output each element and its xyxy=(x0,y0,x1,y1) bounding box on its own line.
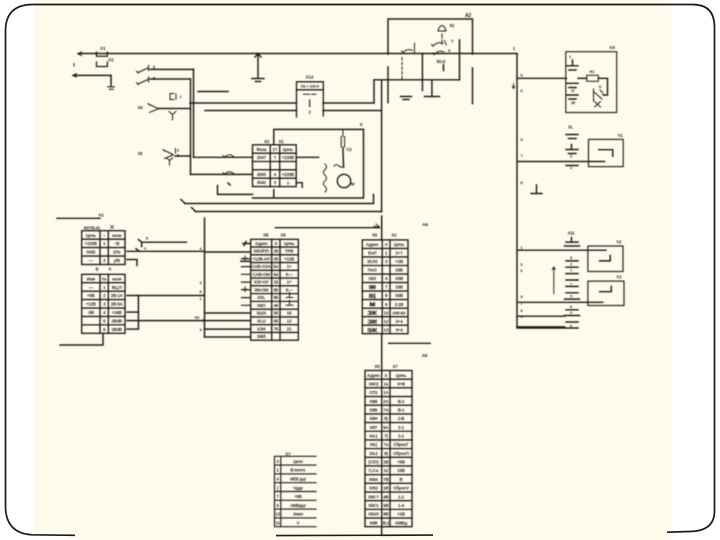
svg-text:А3: А3 xyxy=(609,45,615,50)
svg-text:А1: А1 xyxy=(98,213,104,218)
wire bus stub b xyxy=(517,326,565,328)
svg-text:Х12: Х12 xyxy=(306,75,314,80)
svg-text:В1-6: В1-6 xyxy=(437,59,446,64)
svg-text:Х: Х xyxy=(275,241,278,246)
svg-text:С2: С2 xyxy=(346,147,352,152)
svg-text:Х11: Х11 xyxy=(568,231,576,236)
box A2 outline xyxy=(388,19,473,104)
arrow on phase wire left end xyxy=(78,52,82,56)
svg-text:К—: К— xyxy=(286,287,294,292)
X8 ground glyphs xyxy=(286,293,293,306)
svg-text:7а: 7а xyxy=(384,442,389,447)
X8 left stub pins xyxy=(242,259,251,306)
X6 big glyph overlay xyxy=(367,285,378,335)
svg-text:3.1В: 3.1В xyxy=(395,302,404,307)
svg-text:Х5В: Х5В xyxy=(395,276,403,281)
svg-text:3500: 3500 xyxy=(257,172,267,177)
svg-text:Цепь: Цепь xyxy=(394,242,405,247)
svg-text:у/В: у/В xyxy=(114,258,120,263)
relay dashed link xyxy=(401,58,403,81)
svg-text:F2: F2 xyxy=(108,58,114,63)
wire X12 pin2 feed xyxy=(205,110,296,112)
wire to X2 row2 xyxy=(194,156,253,158)
svg-text:?А: ?А xyxy=(383,407,390,412)
wire riser right contact xyxy=(193,69,195,157)
wire stub upper xyxy=(198,91,228,93)
ground GND3 xyxy=(425,96,440,98)
wire rail A6 xyxy=(389,342,431,344)
wire riser V2 long xyxy=(381,80,383,212)
svg-text:Х4: Х4 xyxy=(138,105,144,110)
svg-text:К—: К— xyxy=(286,272,294,277)
wire X12 pin1 to riser V1 xyxy=(323,102,374,104)
svg-text:(С/О): (С/О) xyxy=(368,460,379,465)
wire A1 stub xyxy=(57,217,100,219)
svg-text:В-поотс: В-поотс xyxy=(290,468,306,473)
svg-text:12: 12 xyxy=(384,468,389,473)
opto cross xyxy=(595,102,601,108)
svg-text:Х9О/ПЛ: Х9О/ПЛ xyxy=(254,249,269,254)
wire relay gnd drop xyxy=(431,80,433,96)
svg-text:Земл: Земл xyxy=(293,512,304,517)
heater squiggle xyxy=(323,164,326,192)
svg-text:65: 65 xyxy=(274,318,279,323)
slide border frame left side xyxy=(6,5,76,536)
svg-text:12: 12 xyxy=(384,319,389,324)
relay contact upper xyxy=(432,41,447,47)
svg-text:Х: Х xyxy=(360,122,363,127)
box A5 xyxy=(253,129,364,198)
X8 stub crosses xyxy=(243,256,248,292)
svg-text:+5В: +5В xyxy=(87,293,95,298)
svg-text:2-В: 2-В xyxy=(398,416,405,421)
switch X4 contact xyxy=(148,104,158,113)
stub ticks X8 left xyxy=(243,242,250,246)
svg-text:1В: 1В xyxy=(383,486,388,491)
svg-text:ПоО: ПоО xyxy=(368,268,378,273)
svg-text:ВЦ.П: ВЦ.П xyxy=(112,285,122,290)
connector table X6 xyxy=(362,240,408,334)
svg-text:7: 7 xyxy=(570,269,572,273)
svg-text:Адрес: Адрес xyxy=(255,241,268,246)
svg-text:75: 75 xyxy=(274,326,279,331)
connector table X7 small grid xyxy=(275,456,317,526)
svg-text:Цепь: Цепь xyxy=(86,233,97,238)
svg-text:С,Са: С,Са xyxy=(369,468,379,473)
svg-text:85: 85 xyxy=(274,295,279,300)
svg-text:3: 3 xyxy=(570,155,572,159)
connector pin bars mid xyxy=(567,83,579,87)
svg-text:САВ-ОЗА: САВ-ОЗА xyxy=(252,264,272,269)
svg-text:Х5В: Х5В xyxy=(395,293,403,298)
slide border bottom segment xyxy=(276,534,433,537)
svg-text:XLU: XLU xyxy=(257,318,265,323)
wire row6 t2 short xyxy=(127,328,138,330)
svg-text:6: 6 xyxy=(570,324,572,328)
svg-text:Х9.2: Х9.2 xyxy=(369,451,378,456)
svg-text:Имя: Имя xyxy=(87,276,96,281)
svg-text:9: 9 xyxy=(200,290,202,294)
svg-text:Y1: Y1 xyxy=(617,133,623,138)
wire row jog small xyxy=(127,260,137,266)
wire A1 bottom drop xyxy=(60,333,103,345)
svg-text:1а: 1а xyxy=(384,381,389,386)
svg-text:Х2: Х2 xyxy=(264,139,270,144)
arrow vertical mark xyxy=(552,267,555,294)
svg-text:ЗЖб: ЗЖб xyxy=(257,334,266,339)
svg-text:Х5: Х5 xyxy=(280,233,286,238)
svg-text:2-1: 2-1 xyxy=(398,425,405,430)
svg-text:Х9О): Х9О) xyxy=(369,381,379,386)
svg-text:8: 8 xyxy=(146,237,148,241)
svg-text:Х9.(: Х9.( xyxy=(370,442,378,447)
svg-text:Y3: Y3 xyxy=(616,275,622,280)
svg-text:2: 2 xyxy=(570,166,572,170)
svg-text:9: 9 xyxy=(570,311,572,315)
wire from QF1a xyxy=(150,68,194,70)
svg-text:№: № xyxy=(102,276,107,281)
svg-text:+5В: +5В xyxy=(397,460,405,465)
wire stub X8 row3 xyxy=(241,260,251,262)
wire X4 to riser xyxy=(158,108,191,110)
svg-text:+2В: +2В xyxy=(395,259,403,264)
switch QF1 contact a xyxy=(137,66,149,74)
switch X5 contact xyxy=(163,149,176,159)
connector X10 bars xyxy=(566,135,578,154)
wire riser left contact xyxy=(190,79,192,174)
svg-text:2В4В: 2В4В xyxy=(112,319,122,324)
svg-text:-5В: -5В xyxy=(88,310,95,315)
motor M1 circle xyxy=(337,174,350,187)
connector table X8 xyxy=(251,239,299,340)
jog under X2 table xyxy=(218,183,253,194)
wire bus X8 row12 xyxy=(205,328,251,330)
svg-text:+12В: +12В xyxy=(86,302,96,307)
bus left vertical xyxy=(204,218,206,337)
wire rail A4 xyxy=(275,227,379,229)
svg-text:В.2: В.2 xyxy=(383,520,390,525)
svg-text:САВ-ОМ: САВ-ОМ xyxy=(253,272,271,277)
svg-text:1+?: 1+? xyxy=(395,251,403,256)
wire relay right inner xyxy=(459,40,461,80)
svg-text:1-2: 1-2 xyxy=(398,494,405,499)
svg-text:ЗШХ: ЗШХ xyxy=(256,311,266,316)
svg-text:Х9Б: Х9Б xyxy=(369,407,377,412)
connector table A1 upper xyxy=(82,231,125,265)
svg-text:Ж: Ж xyxy=(368,285,376,292)
svg-text:А4: А4 xyxy=(422,222,428,227)
wire return lower xyxy=(196,211,382,213)
svg-text:V: V xyxy=(297,521,300,526)
svg-text:3+4: 3+4 xyxy=(396,319,404,324)
wire bus X8 row13 xyxy=(205,336,251,338)
fuse F2 xyxy=(97,62,108,67)
svg-text:8: 8 xyxy=(521,295,523,299)
svg-text:15В: 15В xyxy=(395,268,403,273)
svg-text:В-1: В-1 xyxy=(398,407,405,412)
resistor R1 xyxy=(587,75,599,81)
svg-text:18: 18 xyxy=(287,311,292,316)
relay left contact xyxy=(402,43,415,54)
svg-text:Х9С1: Х9С1 xyxy=(368,503,379,508)
wire row5 t2 to bus xyxy=(127,320,205,322)
svg-text:4В: 4В xyxy=(383,494,388,499)
svg-text:СбросГ: СбросГ xyxy=(393,442,409,447)
svg-text:ЗМ: ЗМ xyxy=(367,319,377,326)
capacitor C2 xyxy=(341,129,344,147)
connector table X2/X1 xyxy=(253,145,297,187)
svg-text:+5В: +5В xyxy=(294,494,301,499)
svg-text:Х9З: Х9З xyxy=(368,276,376,281)
svg-text:Х5: Х5 xyxy=(374,364,380,369)
wire row3 t2 short xyxy=(127,311,138,313)
svg-text:Х54Э: Х54Э xyxy=(368,512,378,517)
wire bus to Y2 xyxy=(517,249,606,251)
wire return upper xyxy=(185,195,374,204)
svg-text:7: 7 xyxy=(202,319,204,323)
svg-text:Х5: Х5 xyxy=(138,151,144,156)
svg-text:2-1: 2-1 xyxy=(398,434,405,439)
wire riser V1 xyxy=(373,80,375,103)
svg-text:⊥: ⊥ xyxy=(286,180,290,185)
wire bus to Y3 xyxy=(517,301,603,303)
wire bus X8 row10 xyxy=(205,312,251,314)
svg-text:GND: GND xyxy=(86,250,95,255)
svg-text:В: В xyxy=(399,477,402,482)
wire bus X8 row2 xyxy=(205,251,251,253)
svg-text:Х9В: Х9В xyxy=(369,520,377,525)
svg-text:1В: 1В xyxy=(383,460,388,465)
bus mid vertical upper xyxy=(381,216,383,240)
white sliver below bottom-left arc xyxy=(34,536,76,540)
contact arcs row2 xyxy=(223,155,235,158)
svg-text:назн: назн xyxy=(112,276,122,281)
wire relay center drop xyxy=(421,54,423,91)
svg-text:2?: 2? xyxy=(273,147,278,152)
pin bar on wire xyxy=(566,165,578,167)
wire X5 out xyxy=(175,155,191,157)
ground GND2 xyxy=(252,79,264,82)
box Y1 xyxy=(589,139,624,166)
ground GND1 xyxy=(108,87,115,90)
svg-text:Адрес: Адрес xyxy=(366,242,379,247)
wire neutral line xyxy=(73,74,111,76)
svg-text:15В: 15В xyxy=(397,468,405,473)
svg-text:Y2: Y2 xyxy=(616,240,622,245)
antenna Y upper xyxy=(169,112,176,121)
svg-text:2: 2 xyxy=(570,263,572,267)
wire C2 to motor xyxy=(342,148,345,168)
connector table A1 lower xyxy=(82,274,125,333)
connector pin bars low xyxy=(567,95,579,99)
svg-text:+: + xyxy=(570,282,572,286)
svg-text:АМВдцг: АМВдцг xyxy=(290,503,306,508)
box Y2 xyxy=(588,246,623,272)
svg-text:3+В: 3+В xyxy=(397,381,405,386)
relay tick xyxy=(443,65,445,71)
svg-text:Цепь: Цепь xyxy=(283,147,294,152)
svg-text:Х6: Х6 xyxy=(372,233,378,238)
solenoid Y3 bracket xyxy=(600,286,612,291)
svg-text:Б: Б xyxy=(96,267,99,272)
svg-text:А6: А6 xyxy=(422,353,428,358)
svg-text:АМВд: АМВд xyxy=(395,520,408,525)
ground GND4 bar xyxy=(401,97,412,100)
svg-text:М: М xyxy=(369,302,375,309)
vertical join t2 xyxy=(137,296,139,330)
svg-text:СП1: СП1 xyxy=(369,390,378,395)
svg-text:М: М xyxy=(351,182,355,187)
svg-text:6: 6 xyxy=(521,269,523,273)
relay contact lower xyxy=(433,51,445,55)
bus right vertical xyxy=(517,54,578,329)
svg-text:64: 64 xyxy=(274,272,279,277)
svg-text:45: 45 xyxy=(274,303,279,308)
svg-text:Х: Х xyxy=(385,242,388,247)
svg-text:26: 26 xyxy=(274,249,279,254)
svg-text:1: 1 xyxy=(521,246,523,250)
svg-text:ЗМ-ОМ: ЗМ-ОМ xyxy=(254,287,269,292)
svg-text:?В: ?В xyxy=(383,477,389,482)
svg-text:Чддс: Чддс xyxy=(293,485,304,490)
bus mid vertical lower xyxy=(381,334,383,371)
svg-text:НЕВ дцг: НЕВ дцг xyxy=(290,477,306,482)
svg-text:Целс: Целс xyxy=(293,459,304,464)
svg-text:+12В: +12В xyxy=(284,256,294,261)
svg-text:85: 85 xyxy=(274,287,279,292)
hook return lower xyxy=(192,208,196,212)
svg-text:Х9С?: Х9С? xyxy=(368,494,379,499)
svg-text:1+: 1+ xyxy=(287,280,292,285)
svg-text:~В: ~В xyxy=(114,241,119,246)
wire X2 row5 jog xyxy=(296,183,302,188)
connector pin 1 bars xyxy=(567,60,579,70)
box X12 xyxy=(297,82,324,117)
connector X11 bars xyxy=(565,238,580,323)
box A3 xyxy=(566,52,617,113)
svg-text:Х7: Х7 xyxy=(392,364,398,369)
svg-text:В-2: В-2 xyxy=(398,399,405,404)
svg-text:А2: А2 xyxy=(465,13,471,19)
svg-text:5В: 5В xyxy=(383,503,388,508)
svg-text:1: 1 xyxy=(200,297,202,301)
wire row gnd to bus xyxy=(127,249,205,252)
wire row1 t2 to bus xyxy=(127,295,205,297)
svg-text:3042: 3042 xyxy=(257,180,267,185)
wire X12 pin2 to riser V2 xyxy=(323,110,382,112)
svg-text:ХМА: ХМА xyxy=(369,477,379,482)
wire bus to Y1 xyxy=(517,161,605,163)
wire neutral drop xyxy=(110,75,112,86)
wire pin to R1 xyxy=(578,77,587,79)
hook return upper xyxy=(181,200,185,204)
svg-text:Х8: Х8 xyxy=(263,233,269,238)
svg-text:1Е: 1Е xyxy=(571,101,576,105)
wire from QF1b xyxy=(150,78,191,80)
svg-text:8: 8 xyxy=(521,309,523,313)
svg-text:5: 5 xyxy=(570,295,572,299)
wire main phase line xyxy=(78,53,517,55)
svg-text:XSL: XSL xyxy=(257,295,266,300)
X12 pin 1 tick xyxy=(309,100,311,107)
svg-text:+220В: +220В xyxy=(85,241,97,246)
svg-text:ЕчЛ: ЕчЛ xyxy=(368,251,376,256)
svg-text:Х9Т: Х9Т xyxy=(370,425,378,430)
arrow on neutral wire xyxy=(73,64,77,78)
wire to X2 row4 xyxy=(191,173,253,175)
bus into border xyxy=(381,527,383,536)
fuse F1 xyxy=(97,52,108,56)
svg-text:2047: 2047 xyxy=(257,155,267,160)
svg-text:2В-1А: 2В-1А xyxy=(111,293,123,298)
connector table X5 bottom xyxy=(365,371,412,527)
svg-text:ЗЖ: ЗЖ xyxy=(367,310,378,317)
svg-text:Х9Н: Х9Н xyxy=(369,416,377,421)
bus arrow xyxy=(512,84,514,89)
wire drop from phase xyxy=(255,54,261,79)
svg-text:1: 1 xyxy=(180,95,182,99)
optocoupler U1 xyxy=(594,89,604,101)
wire row 220 out xyxy=(138,240,186,247)
wire bus stub a xyxy=(517,315,565,317)
svg-text:ХЖ2: ХЖ2 xyxy=(369,486,379,491)
svg-text:Цепь: Цепь xyxy=(284,241,295,246)
svg-text:2В-5А: 2В-5А xyxy=(111,302,123,307)
svg-text:Х: Х xyxy=(385,373,388,378)
svg-text:Х1: Х1 xyxy=(278,139,284,144)
svg-text:ТРВ: ТРВ xyxy=(285,249,293,254)
wire X2 row1 out xyxy=(296,156,318,158)
svg-text:Х1: Х1 xyxy=(391,233,397,238)
svg-text:55: 55 xyxy=(274,311,279,316)
svg-text:SЖ: SЖ xyxy=(367,327,378,334)
ground GND5 xyxy=(531,185,542,194)
svg-text:8: 8 xyxy=(570,305,572,309)
svg-text:1По: 1По xyxy=(113,250,121,255)
svg-text:3+4: 3+4 xyxy=(396,327,404,332)
soft right edge of scan xyxy=(664,0,678,540)
switch QF1 contact b xyxy=(137,77,149,85)
svg-text:Х9О: Х9О xyxy=(257,303,266,308)
svg-text:5: 5 xyxy=(521,263,523,267)
svg-text:СбросП: СбросП xyxy=(393,451,409,456)
svg-text:2В4В: 2В4В xyxy=(112,327,122,332)
wire bus X8 row11 xyxy=(205,320,251,322)
svg-text:Х9В: Х9В xyxy=(369,399,377,404)
contact arcs row4 xyxy=(223,172,235,175)
inductor L1 xyxy=(170,94,176,100)
solenoid Y1 bracket xyxy=(599,150,613,157)
svg-text:СбросV: СбросV xyxy=(393,486,409,491)
svg-text:8: 8 xyxy=(570,256,572,260)
svg-text:1-4: 1-4 xyxy=(398,503,405,508)
svg-text:3: 3 xyxy=(200,281,202,285)
motor tilde xyxy=(334,165,344,168)
relay K1 dashes xyxy=(441,34,443,44)
svg-text:21: 21 xyxy=(287,326,292,331)
svg-text:13: 13 xyxy=(384,327,389,332)
svg-text:ХЗН: ХЗН xyxy=(257,326,265,331)
svg-text:Щ: Щ xyxy=(369,293,376,300)
svg-text:U: U xyxy=(599,85,602,89)
svg-text:ПУ: ПУ xyxy=(195,316,201,320)
svg-text:Х9.1: Х9.1 xyxy=(369,434,378,439)
svg-text:05: 05 xyxy=(274,256,279,261)
svg-text:назн: назн xyxy=(112,233,122,238)
wire X12 pin1 feed xyxy=(190,102,296,104)
svg-text:Фаза: Фаза xyxy=(256,147,267,152)
svg-text:ХL: ХL xyxy=(568,125,574,130)
